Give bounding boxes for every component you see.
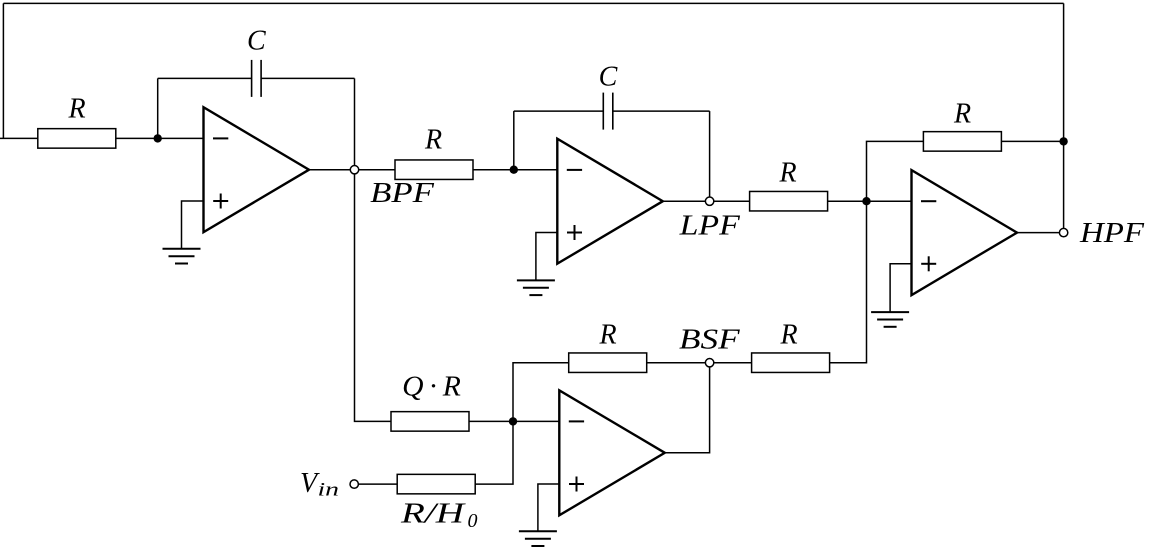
op-amp U1 triangle (204, 107, 310, 232)
svg-text:in: in (318, 479, 340, 500)
capacitor C2 plates (603, 93, 613, 130)
wire input stub (left edge to R) (0, 137, 38, 139)
op-amp U3 minus symbol (921, 200, 936, 202)
wire C2 left segment (514, 110, 604, 112)
op-amp U3 plus symbol (921, 256, 936, 271)
op-amp U1 minus symbol (213, 137, 228, 139)
ground G1 (U1 non-inverting input) (182, 201, 204, 249)
svg-text:R: R (778, 158, 796, 189)
node C junction dot (U3 summing node) (862, 197, 870, 205)
op-amp U4 triangle (559, 390, 665, 515)
terminal BSF open circle (705, 359, 713, 367)
wire node D drop to HPF terminal (1063, 141, 1065, 232)
resistor R (BSF to summing node) (752, 353, 830, 373)
svg-text:R: R (68, 94, 86, 125)
terminal BPF open circle (350, 166, 358, 174)
resistor R (input) (38, 129, 116, 149)
wire U4 feedback resistor to node E riser (513, 363, 569, 422)
node A junction dot (U1 inverting input) (154, 134, 162, 142)
svg-text:0: 0 (468, 510, 478, 532)
svg-text:LPF: LPF (678, 211, 740, 242)
wire Q·R to op-amp U4 inverting input (469, 420, 559, 422)
resistor R (LPF to summing node) (750, 191, 828, 211)
resistor R (U4 feedback) (569, 353, 647, 373)
svg-text:BPF: BPF (370, 178, 435, 209)
node E junction dot (U4 inverting input) (509, 417, 517, 425)
op-amp U4 minus symbol (569, 420, 584, 422)
wire feedback resistor to node D (1001, 140, 1063, 142)
node D junction dot (HPF feedback tap) (1059, 137, 1067, 145)
wire global feedback top run (3, 2, 1063, 4)
wire C1 left segment (158, 77, 252, 79)
op-amp U4 plus symbol (569, 477, 584, 492)
wire node A riser to capacitor C1 (157, 78, 159, 138)
wire U2 output to resistor R (LPF branch) (663, 200, 750, 202)
wire Vin terminal to R/H0 resistor (358, 483, 397, 485)
wire C1 drop to BPF node (354, 78, 356, 169)
wire node C riser to feedback resistor (867, 141, 924, 201)
wire R to op-amp U3 inverting input (828, 200, 912, 202)
node B junction dot (U2 inverting input) (510, 166, 518, 174)
terminal HPF open circle (1059, 228, 1067, 236)
op-amp U3 triangle (912, 170, 1018, 295)
svg-text:C: C (599, 62, 618, 93)
resistor R (U3 feedback) (923, 132, 1001, 152)
op-amp U2 triangle (557, 139, 663, 264)
svg-text:Q · R: Q · R (402, 372, 461, 403)
svg-text:BSF: BSF (679, 325, 741, 356)
svg-text:C: C (247, 26, 266, 57)
wire C2 right segment (613, 110, 710, 112)
resistor R (BPF to U2) (395, 160, 473, 180)
capacitor C1 plates (252, 60, 262, 97)
svg-text:R: R (424, 124, 442, 155)
resistor Q·R (391, 412, 469, 432)
svg-text:R: R (953, 99, 971, 130)
resistor R/H0 (397, 474, 475, 494)
wire global feedback left riser (2, 3, 4, 138)
wire node B riser to capacitor C2 (513, 111, 515, 170)
svg-text:HPF: HPF (1079, 218, 1145, 249)
ground G3 (U3 non-inverting input) (890, 264, 911, 312)
wire BSF terminal to U4 feedback resistor (647, 362, 710, 364)
ground G2 (U2 non-inverting input) (536, 233, 557, 281)
svg-text:R: R (779, 319, 797, 350)
wire R to op-amp U2 inverting input (473, 169, 557, 171)
terminal LPF open circle (705, 197, 713, 205)
wire U1 output to resistor R (BPF branch) (309, 169, 395, 171)
wire U3 output to HPF terminal (1017, 232, 1064, 234)
wire node C drop to BSF branch (830, 201, 867, 363)
wire node E drop to R/H0 resistor (475, 421, 513, 484)
wire BSF terminal to resistor (710, 362, 752, 364)
wire C1 right segment (261, 77, 354, 79)
ground G4 (U4 non-inverting input) (538, 484, 559, 531)
op-amp U1 plus symbol (213, 194, 228, 209)
op-amp U2 minus symbol (567, 169, 582, 171)
svg-text:R: R (598, 319, 616, 350)
wire C2 drop to LPF node (709, 111, 711, 201)
wire U4 output riser to BSF terminal (665, 363, 710, 453)
svg-text:R/H: R/H (400, 499, 467, 530)
wire BPF node drop to Q·R branch (355, 170, 392, 422)
op-amp U2 plus symbol (567, 225, 582, 240)
wire R to op-amp U1 inverting input (116, 137, 204, 139)
wire global feedback right drop to node D (1063, 3, 1065, 141)
terminal Vin open circle (350, 480, 358, 488)
